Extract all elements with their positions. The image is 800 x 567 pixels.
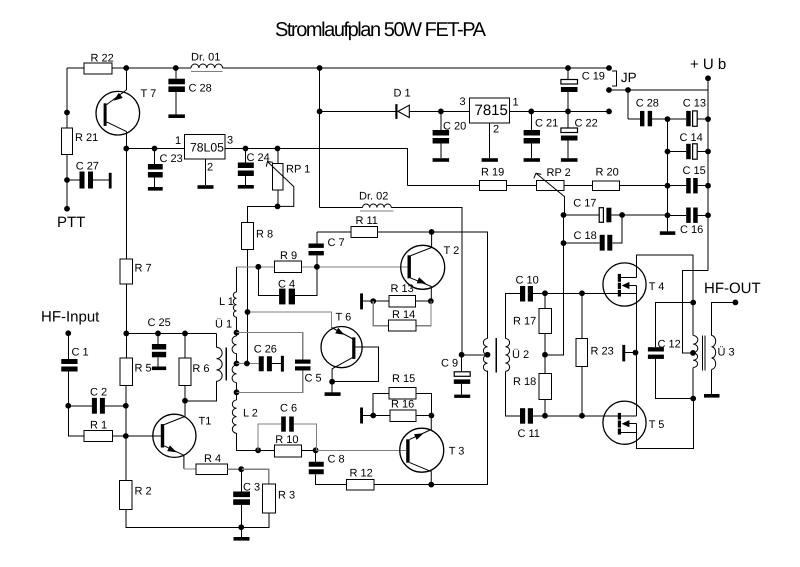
wire T1 emitter to R4 — [184, 468, 196, 470]
svg-text:C 10: C 10 — [516, 275, 539, 287]
node C15 left — [665, 183, 671, 189]
node C28 branch on +Ub line — [625, 87, 631, 93]
transformer U3 primary lower — [693, 353, 697, 367]
capacitor C5 loop across U1 secondary — [237, 333, 322, 393]
wire +Ub jog to U3 center tap — [682, 270, 708, 353]
capacitor C1 — [61, 333, 88, 406]
node C25 branch — [155, 331, 161, 337]
wire R8 down line — [247, 250, 249, 364]
capacitor C21 — [524, 111, 559, 158]
voltage regulator 7815 — [460, 96, 519, 136]
node T7 base — [64, 110, 70, 116]
node T2 emitter — [428, 298, 434, 304]
svg-text:7815: 7815 — [475, 102, 508, 119]
wire R17 leads — [544, 293, 546, 373]
diode D1 — [394, 88, 470, 119]
node C25 row left — [123, 331, 129, 337]
svg-text:PTT: PTT — [57, 214, 85, 231]
svg-text:R 2: R 2 — [135, 486, 152, 498]
node C28 on rail — [173, 65, 179, 71]
node RP1 top on 5V line — [275, 146, 281, 152]
svg-text:R 3: R 3 — [278, 490, 295, 502]
svg-text:R 5: R 5 — [135, 363, 152, 375]
svg-text:C 14: C 14 — [680, 132, 703, 144]
wire R5 top lead — [125, 333, 127, 357]
resistor R4 — [196, 464, 228, 475]
ground left of R16 — [360, 408, 363, 424]
resistor R9 — [275, 261, 302, 272]
svg-text:Stromlaufplan 50W FET-PA: Stromlaufplan 50W FET-PA — [275, 19, 487, 41]
node C1 C2 junction — [65, 403, 71, 409]
wire U3 secondary top to HF-OUT — [712, 302, 736, 335]
ground below C28 left — [168, 114, 185, 118]
ground source column — [622, 345, 635, 362]
wire R11 feedback row — [317, 231, 351, 233]
svg-text:C 7: C 7 — [328, 237, 345, 249]
node T6 collector base junction — [329, 379, 335, 385]
wire R7 column — [125, 149, 127, 260]
wire left column PTT branch — [66, 68, 68, 209]
ground below C22 — [561, 158, 578, 162]
ground below C20 — [433, 158, 450, 162]
svg-text:R 20: R 20 — [596, 167, 619, 179]
resistor R19 — [480, 181, 507, 191]
transformer U1 secondary lower half — [232, 365, 236, 383]
potentiometer RP1 — [266, 149, 310, 207]
node R23 top — [579, 290, 585, 296]
svg-text:C 6: C 6 — [280, 403, 297, 415]
wire L2 to R10 row — [237, 433, 259, 450]
node +Ub line end at JP — [606, 87, 612, 93]
wire R10 leads — [258, 449, 316, 451]
svg-text:C 2: C 2 — [90, 387, 107, 399]
node R17 R18 midpoint — [542, 352, 548, 358]
svg-text:T 4: T 4 — [649, 281, 665, 293]
node rail D1 branch — [317, 65, 323, 71]
wire R4 to C3 node — [228, 468, 242, 470]
wire U3 secondary bottom to ground — [711, 369, 713, 394]
ground left of R13 — [360, 293, 363, 309]
svg-text:C 13: C 13 — [683, 97, 706, 109]
transformer U2 primary lower — [483, 355, 487, 371]
jumper JP bracket — [612, 71, 616, 86]
node U1 secondary center tap — [234, 361, 240, 367]
transformer U1 secondary upper half — [232, 336, 236, 354]
svg-text:T 6: T 6 — [336, 312, 352, 324]
svg-text:C 24: C 24 — [247, 152, 270, 164]
resistor R13 — [389, 296, 415, 307]
wire U1 secondary column top — [236, 267, 238, 292]
resistor R8 — [241, 223, 253, 250]
node RP1 bottom junction — [275, 204, 281, 210]
ground below T6 — [325, 392, 341, 396]
wire 5V line to R19 — [408, 185, 480, 187]
svg-text:Ü 2: Ü 2 — [512, 348, 529, 361]
node T3 collector — [428, 482, 434, 488]
wire 7815 pin2 to ground — [489, 123, 491, 158]
svg-text:R 16: R 16 — [391, 399, 414, 411]
node U3 primary bottom — [690, 396, 696, 402]
resistor R6 — [179, 358, 191, 386]
capacitor C10 — [516, 275, 546, 302]
node U1 secondary bottom — [234, 389, 240, 395]
wire rail to D1 branch — [319, 68, 321, 208]
capacitor C15 — [668, 165, 709, 193]
wire R3 bottom to ground row — [241, 513, 269, 527]
wire U3 primary leads — [692, 303, 694, 399]
node C16 left — [665, 212, 671, 218]
node C13 left — [665, 116, 671, 122]
node C20 junction — [438, 109, 444, 115]
wire T5 drain to U3 bottom — [637, 399, 694, 449]
wire T5 gate row — [545, 415, 618, 417]
svg-text:1: 1 — [175, 135, 181, 147]
svg-text:C 22: C 22 — [575, 118, 598, 130]
ground below C21 — [524, 158, 540, 162]
svg-text:T 5: T 5 — [649, 419, 665, 431]
wire T7 collector to 78L05 line — [126, 148, 184, 150]
transistor T5 MOSFET — [603, 401, 665, 444]
wire U1 secondary middle — [236, 354, 238, 365]
wire R5 column down — [125, 385, 127, 436]
node R13 left — [370, 298, 376, 304]
svg-text:C 11: C 11 — [518, 428, 540, 440]
wire R6 top lead — [184, 333, 186, 357]
svg-text:C 26: C 26 — [254, 344, 277, 356]
wire T6 emitter row — [248, 312, 332, 328]
svg-text:R 12: R 12 — [350, 468, 373, 480]
resistor R15 loop — [373, 373, 431, 416]
svg-text:C 5: C 5 — [305, 373, 322, 385]
svg-text:T 7: T 7 — [141, 88, 157, 100]
capacitor C26 — [254, 344, 281, 372]
ground right of C26 — [281, 356, 284, 372]
svg-text:C 1: C 1 — [72, 347, 89, 359]
wire R7 to C25 row — [125, 284, 127, 334]
svg-text:R 4: R 4 — [204, 453, 221, 465]
inductor Dr.02 — [320, 191, 462, 355]
transformer U1 primary — [217, 347, 223, 381]
svg-text:C 28: C 28 — [636, 97, 659, 109]
resistor R18 — [539, 373, 552, 399]
wire C26 row — [237, 363, 259, 365]
resistor R20 — [593, 181, 620, 191]
node U2 center tap — [485, 352, 491, 358]
svg-text:C 17: C 17 — [573, 198, 596, 210]
wire main supply rail left segment — [67, 67, 191, 69]
resistor R23 — [576, 339, 588, 367]
node C14 right — [705, 149, 711, 155]
svg-text:Dr. 01: Dr. 01 — [191, 52, 220, 64]
wire U1 secondary bottom to L2 — [236, 383, 238, 400]
node C13 right — [705, 116, 711, 122]
capacitor C11 — [518, 408, 546, 440]
svg-text:Ü 3: Ü 3 — [718, 346, 735, 359]
svg-text:78L05: 78L05 — [190, 141, 224, 155]
capacitor C16 — [668, 208, 709, 237]
svg-text:C 12: C 12 — [658, 339, 681, 351]
transistor T3 — [400, 416, 465, 485]
svg-text:R 22: R 22 — [91, 53, 114, 65]
capacitor C24 — [238, 149, 270, 186]
wire input column to R1 row — [68, 406, 84, 436]
svg-text:R 11: R 11 — [356, 215, 378, 227]
wire 7815 output 15V line — [510, 110, 609, 112]
node D1 line junction — [317, 109, 323, 115]
svg-text:Ü 1: Ü 1 — [215, 318, 232, 331]
wire ground stem bottom — [240, 527, 242, 537]
wire driver base row — [237, 266, 408, 268]
transistor T6 — [321, 312, 379, 393]
node C10 R17 junction — [542, 290, 548, 296]
capacitor C28 right — [628, 90, 668, 126]
capacitor C8 — [309, 450, 347, 484]
wire U1 primary bottom lead — [185, 381, 217, 401]
capacitor C9 electrolytic — [441, 355, 470, 395]
ground below C25 — [152, 367, 166, 371]
wire 78L05 pin2 to ground — [205, 159, 207, 185]
capacitor C23 — [148, 149, 183, 188]
capacitor C13 electrolytic — [668, 97, 709, 126]
node bottom ground row — [238, 524, 244, 530]
wire +Ub column down — [707, 78, 709, 270]
svg-text:Dr. 02: Dr. 02 — [359, 191, 388, 203]
svg-text:T1: T1 — [199, 416, 212, 428]
node R10 right C8 top — [313, 447, 319, 453]
svg-text:C 21: C 21 — [535, 118, 558, 130]
node C27 junction — [64, 177, 70, 183]
capacitor C28 left — [168, 68, 211, 114]
node R6 top — [182, 331, 188, 337]
node 15V line end at JP — [606, 109, 612, 115]
capacitor C25 — [148, 317, 171, 367]
ground below C24 — [238, 185, 254, 189]
node C26 row on R8 line — [244, 361, 250, 367]
capacitor C7 — [309, 232, 345, 267]
wire C3 node to R3 — [241, 469, 269, 484]
node 78L05 input junction — [123, 146, 129, 152]
node T2 collector — [429, 229, 435, 235]
transistor T2 — [401, 232, 460, 301]
node C21 junction — [528, 109, 534, 115]
node C19 bottom on 15V line — [565, 109, 571, 115]
inductor L1 — [233, 292, 236, 317]
node C19 top on rail — [565, 65, 571, 71]
svg-text:R 10: R 10 — [275, 434, 298, 446]
ground right of C27 — [109, 173, 112, 189]
node PTT terminal — [64, 206, 70, 212]
ground 78L05 pin2 — [198, 185, 214, 189]
wire 78L05 output 5V line — [225, 149, 408, 186]
wire R16 row — [363, 415, 431, 417]
ground below C9 — [454, 395, 470, 398]
svg-text:C 23: C 23 — [160, 153, 183, 165]
node T6 emitter branch on R8 line — [245, 309, 251, 315]
svg-text:C 19: C 19 — [582, 71, 605, 83]
svg-text:HF-OUT: HF-OUT — [704, 280, 761, 297]
wire bias line RP2 to R20 — [564, 185, 593, 187]
transformer U3 primary upper — [693, 336, 698, 353]
ground below U3 — [704, 394, 720, 398]
svg-text:3: 3 — [460, 96, 466, 108]
svg-text:R 7: R 7 — [135, 263, 152, 275]
capacitor C3 — [233, 469, 260, 527]
node R16 left — [370, 413, 376, 419]
svg-text:2: 2 — [493, 124, 499, 136]
wire T3 base row — [316, 449, 407, 451]
node C2 right on R5 column — [123, 403, 129, 409]
wire T4 drain to U3 top — [637, 255, 694, 302]
inductor Dr.01 — [191, 64, 223, 68]
potentiometer RP2 — [534, 167, 571, 215]
node rail end at JP — [606, 65, 612, 71]
node T1 collector junction — [182, 398, 188, 404]
capacitor C22 electrolytic — [561, 111, 598, 158]
wire R20 to bypass column — [620, 185, 668, 187]
wire R1 to T1 base — [113, 435, 161, 437]
wire wiper line down to R17 R18 midpoint — [545, 215, 564, 355]
wire U2 primary gap — [487, 354, 489, 356]
capacitor C6 loop — [258, 403, 316, 451]
node C9 junction — [459, 352, 465, 358]
wire R18 bottom lead — [544, 400, 546, 416]
node R1 right — [123, 433, 129, 439]
svg-text:D 1: D 1 — [394, 88, 411, 100]
capacitor C17 electrolytic — [564, 198, 668, 223]
svg-text:R 23: R 23 — [591, 346, 614, 358]
svg-text:C 15: C 15 — [683, 165, 706, 177]
resistor R14 loop — [373, 301, 431, 331]
wire R6 to T1 collector — [184, 385, 186, 401]
node HF-Input terminal — [65, 330, 71, 336]
svg-text:L 2: L 2 — [243, 408, 258, 420]
svg-text:+ U b: + U b — [690, 56, 726, 73]
wire RP1 to R8 — [248, 206, 278, 222]
wire bypass column to ground — [667, 215, 669, 231]
capacitor C27 — [67, 161, 109, 189]
ground bottom center — [234, 537, 250, 541]
svg-text:T 3: T 3 — [449, 446, 465, 458]
svg-text:C 28: C 28 — [189, 83, 212, 95]
svg-text:3: 3 — [227, 135, 233, 147]
wire L1 to U1 coil — [236, 317, 238, 336]
svg-text:R 15: R 15 — [392, 373, 415, 385]
resistor R2 — [120, 481, 133, 510]
svg-text:R 8: R 8 — [256, 229, 273, 241]
svg-text:T 2: T 2 — [444, 245, 460, 257]
wire T4 gate row — [545, 292, 618, 294]
svg-text:C 8: C 8 — [328, 454, 345, 466]
transformer U2 core — [495, 338, 497, 372]
transistor T1 — [153, 401, 212, 469]
node R10 left — [255, 447, 261, 453]
wire U1 primary top lead — [216, 333, 218, 347]
svg-text:R 1: R 1 — [90, 420, 107, 432]
node C17 left on wiper line — [561, 212, 567, 218]
node +Ub terminal — [705, 75, 711, 81]
wire right bypass column — [667, 119, 669, 215]
svg-text:R 9: R 9 — [280, 250, 297, 262]
transformer U3 secondary — [712, 336, 716, 370]
svg-text:R 14: R 14 — [392, 309, 415, 321]
node C24 junction — [243, 146, 249, 152]
resistor R7 — [120, 259, 133, 284]
svg-text:HF-Input: HF-Input — [41, 309, 100, 326]
node C18 left on wiper line — [561, 240, 567, 246]
capacitor C4 — [258, 267, 317, 305]
capacitor C12 loop — [648, 303, 693, 399]
svg-text:L 1: L 1 — [219, 296, 234, 308]
voltage regulator 78L05 — [175, 135, 233, 174]
resistor R10 — [275, 445, 302, 457]
svg-text:RP 1: RP 1 — [286, 164, 310, 176]
wire +Ub line — [609, 89, 708, 91]
capacitor C2 — [68, 387, 126, 414]
node C14 left — [665, 149, 671, 155]
node C16 right — [705, 212, 711, 218]
svg-text:R 21: R 21 — [75, 132, 98, 144]
node C17 right junction — [619, 212, 625, 218]
wire Dr.02 supply to center tap row — [462, 354, 488, 356]
svg-text:2: 2 — [207, 162, 213, 174]
wire R13 row — [363, 300, 431, 302]
svg-text:JP: JP — [621, 70, 637, 85]
resistor R22 — [84, 63, 112, 74]
svg-text:C 3: C 3 — [243, 482, 260, 494]
svg-text:R 13: R 13 — [391, 283, 414, 295]
wire C25 supply row — [126, 332, 216, 334]
transformer U1 core — [225, 347, 227, 380]
transistor T7 — [96, 68, 156, 149]
node T3 emitter — [429, 413, 435, 419]
svg-text:R 17: R 17 — [513, 316, 536, 328]
wire R23 leads — [581, 293, 583, 416]
node R9 C4 left — [255, 264, 261, 270]
wire R2 top lead — [125, 436, 127, 481]
wire R11 to T2 collector to U2 — [378, 232, 488, 339]
svg-text:C 25: C 25 — [148, 317, 171, 329]
svg-text:RP 2: RP 2 — [547, 167, 571, 179]
inductor L2 — [232, 400, 236, 433]
resistor R21 — [62, 128, 73, 155]
resistor R5 — [120, 358, 133, 386]
wire D1 anode line — [320, 110, 396, 112]
node R9 C4 right C7 — [314, 264, 320, 270]
node T7 emitter on rail — [123, 65, 129, 71]
transformer U3 core — [702, 336, 705, 371]
svg-text:R 6: R 6 — [192, 363, 209, 375]
transformer U2 primary upper — [483, 339, 487, 355]
node source column ground tap — [633, 350, 639, 356]
resistor R3 — [263, 484, 276, 513]
ground 7815 pin2 — [482, 158, 498, 162]
capacitor C18 — [564, 215, 623, 251]
wire main supply rail right segment — [223, 67, 610, 69]
svg-text:C 18: C 18 — [574, 230, 597, 242]
svg-text:R 18: R 18 — [513, 376, 536, 388]
capacitor C14 electrolytic — [668, 132, 709, 159]
node U1 secondary top — [234, 330, 240, 336]
wire R12 row to T3 collector to U2 bottom — [374, 370, 488, 484]
wire T4 source column down to T5 — [636, 286, 638, 417]
node U3 primary center tap — [690, 350, 696, 356]
resistor R11 — [351, 226, 378, 237]
svg-text:1: 1 — [513, 97, 519, 109]
svg-text:C 9: C 9 — [441, 358, 458, 370]
ground bypass column — [660, 231, 676, 235]
ground below C23 — [148, 187, 163, 191]
svg-text:C 4: C 4 — [278, 279, 295, 291]
